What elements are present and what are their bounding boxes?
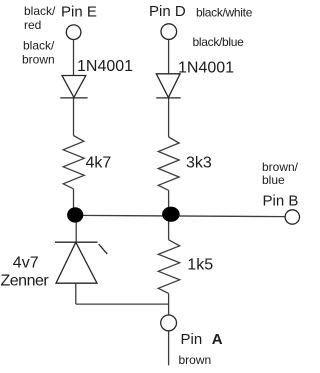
svg-text:black/white: black/white: [196, 6, 253, 20]
svg-text:1N4001: 1N4001: [178, 60, 234, 77]
svg-text:brown: brown: [179, 353, 212, 367]
svg-text:brown/: brown/: [262, 160, 299, 174]
svg-text:Pin D: Pin D: [149, 3, 186, 20]
svg-text:Zenner: Zenner: [1, 273, 50, 290]
svg-text:Pin B: Pin B: [263, 192, 299, 209]
svg-text:1k5: 1k5: [187, 257, 213, 274]
svg-text:brown: brown: [22, 53, 55, 67]
svg-text:A: A: [212, 331, 223, 348]
svg-text:blue: blue: [262, 173, 285, 187]
svg-text:black/: black/: [23, 39, 55, 53]
svg-text:3k3: 3k3: [186, 155, 212, 172]
svg-text:4v7: 4v7: [13, 254, 39, 271]
svg-text:Pin E: Pin E: [61, 3, 97, 20]
svg-text:1N4001: 1N4001: [77, 58, 133, 75]
svg-text:Pin: Pin: [181, 331, 203, 348]
svg-text:black/: black/: [24, 4, 56, 18]
svg-text:4k7: 4k7: [86, 155, 112, 172]
svg-text:black/blue: black/blue: [193, 35, 245, 49]
svg-text:red: red: [24, 18, 41, 32]
